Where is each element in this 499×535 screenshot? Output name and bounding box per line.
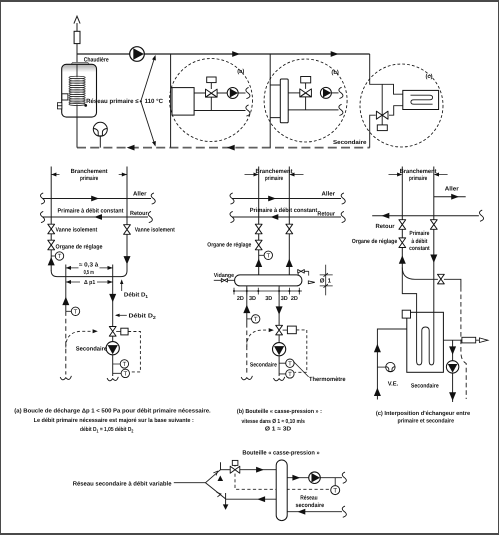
- vanne 3 voies (b): [300, 77, 312, 110]
- flèche montée boucle (a): [62, 297, 69, 305]
- svg-text:primaire et secondaire: primaire et secondaire: [398, 418, 455, 425]
- chaudière: [57, 63, 96, 118]
- svg-text:Vanne isolement: Vanne isolement: [56, 226, 98, 233]
- purgeur d'air (b): [298, 270, 315, 284]
- wire: vers secondaire (b): [331, 92, 338, 94]
- échangeur (c): [403, 90, 439, 109]
- wire: départ secondaire (c): [443, 339, 479, 341]
- wire: colonne aller (a): [50, 167, 52, 272]
- soupape / vase sur colonne montante: [74, 16, 80, 64]
- flèche descente (a): [124, 256, 131, 264]
- liaison pointillée boucle-vanne (b): [247, 330, 268, 346]
- svg-text:V.E.: V.E.: [388, 380, 399, 387]
- svg-text:Secondaire: Secondaire: [333, 139, 367, 146]
- wire: ligne Aller (a): [43, 198, 152, 200]
- svg-text:Retour: Retour: [317, 210, 335, 217]
- wire: alimentation circuit (c): [370, 54, 403, 94]
- wire: bipasse vers vanne (c): [402, 268, 438, 280]
- svg-text:primaire: primaire: [265, 175, 284, 182]
- renvoi Thermomètre (b): [294, 362, 309, 377]
- wire: colonne retour (a): [126, 167, 128, 272]
- svg-text:Primaire: Primaire: [409, 230, 430, 237]
- flèche montée: [218, 476, 224, 482]
- svg-text:primaire: primaire: [409, 175, 428, 182]
- serpentin (c): [411, 95, 433, 104]
- vanne 3 voies (a): [206, 77, 218, 111]
- liaison pointillée vanne-thermostat: [235, 474, 331, 490]
- svg-text:2D: 2D: [291, 296, 298, 302]
- bouteille casse-pression verticale: [276, 460, 287, 521]
- wire: retour primaire depuis échangeur (c): [402, 268, 416, 313]
- flèche descente: [223, 504, 229, 510]
- svg-text:(b): (b): [331, 69, 338, 76]
- svg-text:Débit D1: Débit D1: [124, 292, 149, 299]
- wire: retour secondaire vers échangeur (c): [377, 329, 406, 400]
- node: piquage circuit (b): [269, 54, 271, 148]
- wire: arrivée réseau variable: [174, 482, 206, 484]
- wire: branche descendante: [206, 483, 226, 499]
- pompe (a): [227, 88, 238, 99]
- wire: vers pompe (a): [112, 336, 114, 376]
- flèche montée gauche (b): [255, 259, 262, 267]
- flèche retour 1: [127, 145, 135, 151]
- annotation Débit D1 (a): [121, 281, 123, 291]
- wire: départ secondaire (a): [194, 92, 227, 94]
- svg-text:Branchement: Branchement: [71, 168, 108, 175]
- bouteille casse-pression horizontale (b): [235, 275, 302, 286]
- wire: retour bouteille gauche: [226, 498, 277, 500]
- svg-text:≈ 0,3 à: ≈ 0,3 à: [79, 261, 99, 268]
- svg-text:Branchement: Branchement: [256, 168, 293, 175]
- wire: départ secondaire depuis bouteille (b): [278, 286, 280, 326]
- flèche montée (a): [48, 257, 55, 265]
- vanne isolement gauche (b): [255, 224, 262, 234]
- pompe (b): [320, 87, 331, 98]
- cotes 2D 3D 3D 3D 2D (b): [233, 288, 302, 302]
- wire: retour primaire (ligne basse, pointillée): [77, 147, 370, 149]
- svg-text:Débit D2: Débit D2: [129, 313, 157, 320]
- wire: descente gauche secondaire (a): [65, 265, 67, 312]
- cote branchement (c): [389, 174, 448, 176]
- wire: liaisons bouteille (b): [270, 85, 280, 118]
- svg-text:Vidange: Vidange: [214, 272, 235, 279]
- thermomètre T retour (b): [247, 318, 252, 320]
- svg-text:Primaire à débit constant: Primaire à débit constant: [58, 207, 124, 214]
- svg-text:Secondaire: Secondaire: [250, 362, 278, 369]
- liaison pointillée vanne-thermostat (a): [128, 332, 140, 372]
- wire: bipasse aval (c): [444, 279, 461, 287]
- flèche départ 1: [232, 51, 240, 57]
- échangeur (a): [172, 88, 194, 116]
- svg-text:0,5 m: 0,5 m: [84, 269, 94, 276]
- thermomètre T (b): [259, 254, 264, 256]
- svg-text:Le débit primaire nécessaire e: Le débit primaire nécessaire est majoré …: [34, 417, 194, 424]
- wire: retour circuit (c): [370, 115, 376, 147]
- liaison pointillée bipasse (c): [461, 287, 466, 399]
- svg-text:Réseau secondaire à débit var: Réseau secondaire à débit variable: [73, 481, 172, 488]
- wire: retour secondaire: [287, 511, 342, 513]
- node: piquage circuit (a): [170, 54, 172, 148]
- svg-text:Secondaire: Secondaire: [411, 383, 439, 390]
- flèche montée droite (b): [286, 259, 293, 267]
- svg-text:1: 1: [328, 277, 332, 284]
- svg-text:Ø: Ø: [320, 277, 325, 284]
- vanne isolement (c): [399, 220, 406, 230]
- svg-text:Chaudière: Chaudière: [84, 57, 110, 64]
- bouteille casse-pression (b): [280, 79, 288, 123]
- svg-text:vitesse dans Ø 1 ≈ 0,10 m/s: vitesse dans Ø 1 ≈ 0,10 m/s: [242, 418, 306, 425]
- wire: descente droite secondaire (a): [112, 265, 114, 327]
- cercle pointillé variante (c): [360, 64, 443, 147]
- thermomètres jumelés (a): [113, 364, 121, 373]
- wire: ligne Retour (a): [43, 216, 149, 218]
- wire: vers pompe (b): [278, 335, 280, 376]
- vanne bipasse (c): [438, 274, 445, 284]
- svg-text:3D: 3D: [265, 296, 272, 302]
- svg-text:à débit: à débit: [411, 238, 427, 245]
- wire: colonne aller (b): [258, 167, 260, 276]
- wire: sortie échangeur (c): [389, 106, 403, 116]
- svg-text:(a) Boucle de décharge Δp 1 <: (a) Boucle de décharge Δp 1 < 500 Pa pou…: [14, 408, 211, 415]
- wire: branche montante: [206, 470, 221, 483]
- pompe secondaire (a): [106, 342, 119, 355]
- svg-text:2D: 2D: [237, 296, 244, 302]
- liaison pointillée vanne-thermomètre (b): [295, 330, 307, 372]
- svg-text:(c): (c): [426, 73, 433, 80]
- wire: boucle de décharge (a): [51, 271, 127, 277]
- svg-text:constant: constant: [409, 246, 430, 252]
- annotation Débit D2 (a): [116, 314, 127, 316]
- échangeur à serpentin (c): [407, 312, 444, 372]
- wire: vanne vers bouteille: [240, 469, 276, 471]
- svg-text:Retour: Retour: [130, 210, 148, 217]
- vanne de réglage (c): [376, 84, 388, 130]
- wire: ligne Aller (c): [434, 196, 466, 198]
- pompe secondaire: [309, 472, 321, 484]
- thermostat T: [334, 478, 336, 486]
- thermomètre T (a) colonne aller: [51, 255, 55, 257]
- wire: retour secondaire (b): [288, 109, 338, 111]
- organe de réglage (a): [48, 240, 55, 250]
- cote Δ p1 (a): [66, 281, 113, 283]
- pompe primaire: [130, 47, 145, 62]
- wire: colonne retour (b): [288, 167, 290, 276]
- wire: ligne Aller (b): [232, 198, 341, 200]
- annotation Réseau primaire ≤ 110 °C: [86, 54, 163, 147]
- svg-text:Thermomètre: Thermomètre: [309, 376, 346, 383]
- cercle pointillé variante (b): [264, 59, 347, 142]
- svg-text:Vanne isolement: Vanne isolement: [135, 226, 175, 233]
- wire: départ secondaire (b): [288, 92, 300, 94]
- svg-text:Aller: Aller: [445, 186, 460, 193]
- flèche montée retour (c): [399, 255, 406, 263]
- svg-text:3D: 3D: [249, 296, 256, 302]
- wire: sortie chaudière vers retour: [76, 117, 78, 148]
- cote 0,3 à 0,5 m (a): [66, 267, 113, 269]
- wire: départ primaire (ligne haute): [77, 53, 370, 55]
- wire: colonne aller (c): [433, 167, 435, 313]
- svg-text:secondaire: secondaire: [295, 502, 324, 509]
- cercle pointillé variante (a): [170, 59, 253, 142]
- organe de réglage (b): [255, 240, 262, 250]
- pompe secondaire (c): [446, 361, 458, 373]
- vanne de réglage motorisée: [230, 460, 240, 473]
- svg-text:3D: 3D: [281, 296, 288, 302]
- vanne de réglage secondaire (b): [276, 325, 283, 335]
- svg-text:Réseau: Réseau: [300, 494, 318, 501]
- svg-text:Secondaire: Secondaire: [76, 345, 108, 352]
- svg-text:Bouteille « casse-pression »: Bouteille « casse-pression »: [242, 450, 320, 457]
- wire: retour secondaire vers bouteille (b): [246, 286, 248, 323]
- svg-text:Organe de réglage: Organe de réglage: [352, 238, 398, 245]
- svg-text:Branchement: Branchement: [400, 168, 437, 175]
- svg-text:Organe de réglage: Organe de réglage: [56, 243, 104, 250]
- wire: ligne vers vanne: [221, 469, 230, 471]
- organe de réglage (c): [399, 238, 406, 248]
- svg-text:(a): (a): [237, 68, 244, 75]
- svg-text:Organe de réglage: Organe de réglage: [207, 241, 252, 248]
- cote Ø 1 (b): [320, 265, 333, 296]
- cote branchement (b): [245, 174, 304, 176]
- svg-text:primaire: primaire: [80, 175, 99, 182]
- flèche retour 2: [227, 145, 235, 151]
- serpentin primaire (c): [417, 312, 434, 365]
- wire: vers pompe secondaire (c): [452, 340, 454, 402]
- flèche départ 2: [331, 51, 339, 57]
- liaison pointillée boucle-vanne (a): [66, 331, 92, 347]
- thermomètre T descente gauche (a): [66, 310, 72, 312]
- wire: ligne Retour (c): [372, 215, 479, 217]
- svg-text:110 °C: 110 °C: [145, 98, 164, 105]
- vanne isolement gauche (a): [48, 224, 55, 234]
- svg-text:débit D1 = 1,05 débit D2: débit D1 = 1,05 débit D2: [80, 426, 134, 433]
- flèche descente boucle (a): [109, 294, 116, 302]
- thermomètres jumelés (b): [279, 363, 286, 374]
- flèche descente aller (c): [430, 255, 437, 263]
- svg-text:Aller: Aller: [133, 190, 147, 197]
- cote branchement (a): [51, 174, 127, 176]
- wire: vers secondaire (a): [238, 92, 245, 94]
- wire: retour secondaire (a): [194, 110, 245, 112]
- wire: ligne Retour (b): [232, 216, 341, 218]
- vase d'expansion V.E. (c): [377, 366, 385, 368]
- wire: colonne retour (c): [401, 167, 403, 268]
- manomètre (cercle en Y): [93, 122, 107, 147]
- vanne de réglage secondaire (a): [109, 327, 116, 337]
- svg-text:Aller: Aller: [322, 190, 336, 197]
- doigt de gant (c): [462, 337, 476, 343]
- vanne isolement droite (b): [286, 224, 293, 234]
- svg-text:Primaire à débit constant: Primaire à débit constant: [250, 207, 317, 214]
- svg-text:Ø 1 ≈ 3D: Ø 1 ≈ 3D: [265, 425, 291, 432]
- svg-text:Retour: Retour: [376, 223, 396, 230]
- vanne isolement droite (a): [124, 225, 131, 235]
- wire: départ secondaire: [287, 477, 342, 479]
- svg-text:Δ p1: Δ p1: [84, 279, 96, 286]
- svg-text:(c) Interposition d'échangeur: (c) Interposition d'échangeur entre: [376, 410, 471, 417]
- pompe secondaire (b): [273, 343, 286, 356]
- svg-text:Réseau primaire ≤: Réseau primaire ≤: [86, 98, 139, 105]
- svg-text:(b) Bouteille « casse-pression: (b) Bouteille « casse-pression » :: [237, 408, 322, 415]
